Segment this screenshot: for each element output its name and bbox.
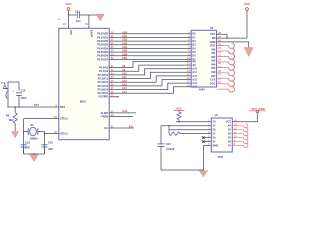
svg-text:1Y: 1Y [213,125,216,128]
svg-text:IN1: IN1 [212,52,217,55]
svg-text:4A: 4A [228,140,231,143]
svg-text:GND: GND [213,144,219,147]
svg-text:A13: A13 [122,83,127,87]
svg-text:VCC: VCC [176,107,182,111]
svg-text:10uF: 10uF [21,96,27,100]
svg-text:6Y: 6Y [228,129,231,132]
svg-text:VCC: VCC [244,2,251,6]
svg-text:R6: R6 [6,113,10,117]
svg-text:AD0: AD0 [122,30,128,34]
svg-text:RST: RST [60,106,65,109]
svg-text:P0.1/AD1: P0.1/AD1 [97,36,108,39]
svg-text:A12: A12 [122,79,127,83]
svg-text:4Y: 4Y [228,144,231,147]
svg-text:1A: 1A [213,121,216,124]
svg-text:P0.2/AD2: P0.2/AD2 [97,40,108,43]
svg-text:P2.6/A14: P2.6/A14 [98,88,109,91]
svg-text:GND: GND [210,41,216,44]
svg-text:P0.3/AD3: P0.3/AD3 [97,44,108,47]
svg-text:A9: A9 [122,68,126,72]
svg-text:RD: RD [212,37,216,40]
svg-text:PSEN: PSEN [101,115,108,118]
svg-text:IN6: IN6 [212,71,217,74]
svg-text:3A: 3A [213,137,216,140]
svg-text:3Y: 3Y [213,140,216,143]
svg-text:X1: X1 [31,123,35,127]
svg-text:2Y: 2Y [213,133,216,136]
svg-text:VCC_RAM: VCC_RAM [251,107,265,111]
svg-text:AD7: AD7 [122,56,128,60]
svg-text:P2.5/A13: P2.5/A13 [98,85,109,88]
svg-text:P2.3/A11: P2.3/A11 [98,77,109,80]
svg-text:VCC: VCC [210,33,215,36]
svg-text:AD5: AD5 [122,49,128,53]
svg-text:A14: A14 [122,86,127,90]
svg-text:C10: C10 [21,88,26,92]
svg-text:AD1: AD1 [122,34,128,38]
svg-text:P2.7/A15: P2.7/A15 [98,92,109,95]
svg-text:EA/VP: EA/VP [90,30,93,38]
svg-text:CLK: CLK [210,79,215,82]
svg-text:EA: EA [105,127,109,130]
svg-text:22P: 22P [25,146,30,150]
svg-text:AD2: AD2 [122,38,128,42]
svg-text:P0.4/AD4: P0.4/AD4 [97,47,108,50]
svg-text:RST: RST [210,45,215,48]
svg-text:AD4: AD4 [122,45,128,49]
svg-text:22P: 22P [48,147,53,151]
svg-text:XTAL2: XTAL2 [60,118,68,121]
svg-text:IN3: IN3 [212,60,217,63]
svg-text:A14: A14 [192,82,197,85]
svg-text:7404: 7404 [218,156,224,159]
svg-text:U2: U2 [210,26,214,30]
svg-text:6A: 6A [228,125,231,128]
svg-text:XTAL1: XTAL1 [60,133,68,136]
svg-text:IN7: IN7 [212,75,217,78]
svg-text:EA: EA [129,124,133,128]
svg-text:P2.1/A9: P2.1/A9 [99,70,109,73]
svg-text:IN0: IN0 [212,48,217,51]
svg-text:A11: A11 [122,75,127,79]
svg-text:P0.6/AD6: P0.6/AD6 [97,55,108,58]
svg-text:VCC: VCC [1,83,6,85]
svg-text:IN4: IN4 [212,63,217,66]
svg-text:IN2: IN2 [212,56,217,59]
svg-text:C15: C15 [48,141,53,145]
svg-text:A15: A15 [192,86,197,89]
svg-text:C11: C11 [75,10,80,14]
svg-text:C16: C16 [25,141,30,145]
svg-text:12MHz: 12MHz [30,136,39,140]
svg-text:P3.7/RD: P3.7/RD [99,96,109,99]
svg-text:A11: A11 [192,71,197,74]
svg-text:A12: A12 [192,75,197,78]
svg-text:C17: C17 [166,142,171,146]
svg-text:A10: A10 [122,72,127,76]
svg-text:P0.0/AD0: P0.0/AD0 [97,33,108,36]
svg-text:P2.2/A10: P2.2/A10 [98,74,109,77]
svg-text:VCC: VCC [69,30,72,35]
svg-text:8K2: 8K2 [9,118,14,122]
svg-text:ALE: ALE [122,109,128,113]
svg-text:RST: RST [34,104,39,107]
svg-text:A10: A10 [192,68,197,71]
svg-text:A13: A13 [192,78,197,81]
svg-text:P0.7/AD7: P0.7/AD7 [97,58,108,61]
svg-text:8051: 8051 [80,100,87,104]
svg-text:VCC: VCC [65,2,72,6]
svg-text:0.01uF: 0.01uF [166,147,175,151]
svg-text:ALE/P: ALE/P [101,112,109,115]
svg-text:EOC: EOC [210,82,216,85]
svg-text:U3: U3 [215,113,219,117]
svg-text:A15: A15 [122,90,127,94]
svg-text:6264: 6264 [199,88,205,91]
svg-text:5Y: 5Y [228,137,231,140]
svg-text:VCC: VCC [226,121,231,124]
svg-text:5A: 5A [228,133,231,136]
svg-text:AD3: AD3 [122,41,128,45]
svg-text:P0.5/AD5: P0.5/AD5 [97,51,108,54]
svg-text:104: 104 [76,19,81,23]
svg-text:P2.0/A8: P2.0/A8 [99,67,109,70]
svg-text:A8: A8 [122,64,126,68]
svg-text:2A: 2A [213,129,216,132]
svg-text:AD6: AD6 [122,52,128,56]
svg-text:P2.4/A12: P2.4/A12 [98,81,109,84]
svg-text:IN5: IN5 [212,67,217,70]
